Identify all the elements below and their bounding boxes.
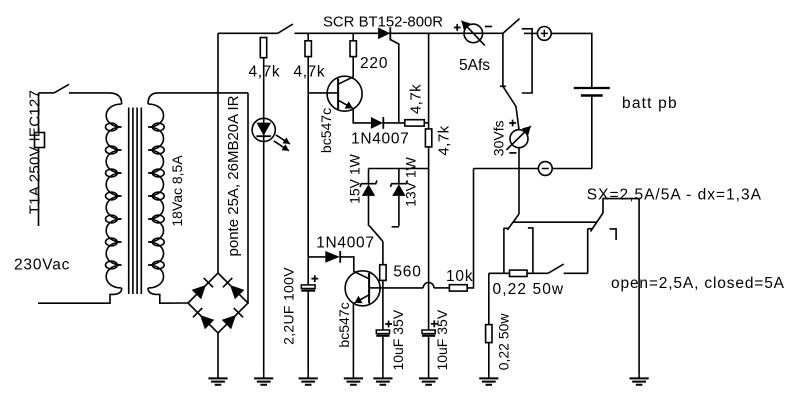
- svg-text:10uF 35V: 10uF 35V: [390, 309, 406, 370]
- resistor 10k R7: [449, 285, 467, 291]
- wire D2 to Q2 collector: [340, 257, 354, 272]
- wire secondary top to bridge: [158, 92, 248, 94]
- svg-text:15V 1W: 15V 1W: [347, 153, 363, 204]
- bridge diode top-left: [192, 285, 206, 299]
- wire SXb contact up: [587, 229, 589, 273]
- wire cap node to D2: [308, 256, 325, 258]
- bridge diode bottom-left: [200, 315, 214, 329]
- svg-text:ponte 25A, 26MB20A IR: ponte 25A, 26MB20A IR: [225, 95, 242, 256]
- ground SX: [638, 375, 640, 379]
- wire anode rail top: [428, 33, 430, 129]
- svg-text:4,7k: 4,7k: [294, 64, 326, 81]
- wire S3b pole: [502, 33, 504, 86]
- transistor Q2 bc547c emitter arrow: [354, 295, 369, 303]
- wire hop over rail: [423, 283, 434, 288]
- C3 plus sign: [431, 320, 438, 327]
- wire primary top corner: [109, 93, 122, 104]
- diode D2 1N4007: [325, 251, 339, 263]
- transformer T1 primary winding: [106, 104, 122, 288]
- wire Q2 base: [369, 287, 383, 289]
- ground LED: [263, 375, 265, 379]
- wire minus rail left: [474, 168, 539, 170]
- switch S4 blade: [548, 264, 564, 273]
- svg-text:10k: 10k: [446, 268, 473, 285]
- svg-text:bc547c: bc547c: [336, 302, 352, 347]
- ammeter 5Afs needle: [462, 21, 485, 46]
- wire 220 to Q1 collector: [352, 57, 354, 77]
- switch S1 mains blade: [54, 84, 69, 93]
- wire shunt2 down: [488, 273, 490, 324]
- wire R2 top: [307, 33, 309, 41]
- SXb contact tick: [588, 228, 593, 230]
- switch gang bracket left: [528, 228, 533, 273]
- switch S2 blade: [278, 24, 293, 33]
- svg-text:30Vfs: 30Vfs: [490, 120, 506, 156]
- switch S3b blade: [503, 86, 519, 129]
- battery batt pb: [574, 87, 610, 89]
- resistor 560 R6: [380, 265, 386, 281]
- wire mains live top: [39, 92, 55, 94]
- wire top rail mid: [295, 32, 503, 34]
- wire C3 to ground: [428, 336, 430, 375]
- voltmeter 30Vfs needle: [506, 126, 530, 150]
- wire zener rail: [369, 168, 429, 170]
- resistor 4,7k R2: [305, 41, 311, 57]
- svg-text:5Afs: 5Afs: [459, 57, 490, 74]
- LED D3 body: [252, 118, 275, 141]
- wire Q1 emitter down: [353, 109, 371, 123]
- wire top rail left: [218, 32, 278, 34]
- wire primary bottom corner: [113, 288, 122, 294]
- wire SXb to ground: [603, 199, 639, 375]
- wire secondary bottom to bridge: [157, 294, 188, 303]
- wire S3 to plus terminal: [524, 32, 537, 34]
- resistor 4,7k R4 horizontal: [405, 120, 425, 126]
- wire Q1 base: [308, 92, 338, 94]
- transistor Q2 bc547c: [345, 271, 380, 306]
- wire secondary bottom corner: [148, 288, 157, 294]
- wire R5 to zener rail: [428, 147, 430, 330]
- svg-text:18Vac 8,5A: 18Vac 8,5A: [169, 155, 185, 227]
- wire plus terminal to battery: [551, 33, 592, 88]
- wire mains neutral bottom: [38, 294, 113, 303]
- svg-text:SCR BT152-800R: SCR BT152-800R: [323, 15, 443, 31]
- wire 10k to sense: [467, 169, 473, 288]
- capacitor C1 2,2UF 100V: [301, 285, 315, 289]
- SCR BT152-800R: [378, 28, 390, 40]
- ground Q2 emitter: [352, 375, 354, 379]
- bridge diode bottom-right: [222, 315, 236, 329]
- wire switch to transformer: [69, 92, 109, 94]
- SXa contact tick: [503, 227, 509, 229]
- ground C3: [428, 375, 430, 379]
- wire 560 bottom: [382, 280, 384, 288]
- transistor Q1 bc547c emitter arrow: [338, 100, 353, 108]
- wire hop to 10k: [434, 287, 449, 289]
- diode D1 1N4007: [371, 117, 383, 129]
- bridge diode top-right: [230, 285, 244, 299]
- svg-text:4,7k: 4,7k: [407, 84, 424, 114]
- transformer T1 secondary winding: [148, 104, 164, 288]
- svg-text:open=2,5A, closed=5A: open=2,5A, closed=5A: [611, 275, 785, 292]
- svg-text:batt pb: batt pb: [622, 95, 678, 112]
- C2 plus sign: [385, 321, 392, 328]
- voltmeter minus: [509, 152, 516, 154]
- svg-text:0,22 50w: 0,22 50w: [495, 313, 511, 371]
- ground C1: [307, 375, 309, 379]
- wire C1 to ground: [307, 291, 309, 375]
- wire blade to 560: [382, 241, 384, 264]
- svg-text:T1A 250V IEC127: T1A 250V IEC127: [26, 90, 43, 215]
- transformer core: [129, 108, 142, 295]
- svg-text:230Vac: 230Vac: [14, 257, 70, 274]
- svg-text:2,2UF 100V: 2,2UF 100V: [281, 267, 297, 345]
- wire bus right: [564, 272, 588, 274]
- LED arrow 1: [276, 135, 290, 144]
- ground bridge minus: [217, 333, 219, 378]
- transistor Q1 bc547c: [327, 76, 362, 111]
- resistor 220 R3: [350, 41, 356, 57]
- wire R1 to LED: [263, 58, 265, 375]
- resistor 0,22 50w R8: [510, 270, 528, 276]
- ammeter minus: [485, 26, 492, 28]
- svg-text:4,7k: 4,7k: [435, 125, 452, 155]
- svg-text:10uF 35V: 10uF 35V: [434, 309, 450, 370]
- LED arrow 2: [274, 141, 289, 151]
- wire C2 to ground: [382, 336, 384, 375]
- wire bridge plus to top rail: [217, 33, 219, 273]
- switch gang bracket top: [522, 29, 532, 93]
- voltmeter plus: [509, 120, 516, 127]
- ground C2: [382, 375, 384, 379]
- svg-text:bc547c: bc547c: [318, 108, 334, 153]
- wire Q2 emitter to ground: [352, 304, 354, 375]
- ground shunt2: [488, 375, 490, 379]
- wire sense down: [518, 169, 520, 215]
- wire D1 to R4: [383, 122, 405, 124]
- terminal battery minus: [538, 162, 552, 176]
- wire R2 down to cap: [307, 57, 309, 285]
- selector switch blade: [369, 226, 383, 242]
- switch S3a blade: [503, 19, 520, 34]
- switch gang bracket right: [610, 229, 617, 240]
- voltmeter 30Vfs: [510, 130, 528, 148]
- selector fixed contact Z2: [392, 226, 399, 228]
- fuse F1 T1A: [35, 133, 45, 148]
- capacitor C2 10uF 35V: [376, 330, 389, 334]
- wire battery to minus rail: [591, 96, 593, 169]
- resistor 4,7k R1: [260, 38, 266, 58]
- svg-text:0,22 50w: 0,22 50w: [493, 281, 565, 298]
- wire bus mid: [527, 272, 548, 274]
- wire mains live vertical: [38, 93, 40, 226]
- terminal battery plus: [537, 27, 551, 41]
- svg-text:220: 220: [360, 55, 388, 72]
- wire shunt bus left: [489, 272, 510, 274]
- wire gang link: [514, 221, 597, 223]
- svg-text:13V 1W: 13V 1W: [402, 156, 418, 207]
- svg-text:560: 560: [393, 264, 421, 281]
- switch SXb blade: [591, 213, 604, 232]
- wire Q2 base to hop: [383, 287, 423, 289]
- wire 560 line to C2: [382, 288, 384, 330]
- ammeter 5Afs: [464, 24, 483, 43]
- wire minus rail right: [552, 168, 592, 170]
- svg-text:SX=2,5A/5A - dx=1,3A: SX=2,5A/5A - dx=1,3A: [587, 187, 762, 204]
- resistor 0,22 50w R9: [486, 325, 492, 343]
- wire SXa contact down: [503, 228, 505, 273]
- wire R4 to rail: [424, 122, 428, 124]
- S3b contact tick: [500, 85, 506, 87]
- wire SCR gate: [390, 40, 399, 123]
- ammeter plus: [454, 24, 461, 31]
- resistor 4,7k R5: [425, 129, 431, 147]
- bridge rectifier diamond: [188, 273, 248, 333]
- zener Z2 13V 1W: [398, 169, 400, 184]
- svg-text:1N4007: 1N4007: [351, 131, 410, 148]
- wire 220 top: [352, 33, 354, 41]
- wire shunt2 to ground: [488, 343, 490, 375]
- wire voltmeter to minus rail: [518, 148, 520, 169]
- zener Z1 15V 1W: [368, 169, 370, 184]
- svg-text:1N4007: 1N4007: [316, 235, 375, 252]
- wire bridge AC right: [247, 93, 249, 303]
- switch SXa blade: [507, 214, 519, 230]
- C1 plus sign: [311, 275, 318, 282]
- capacitor C3 10uF 35V: [422, 330, 435, 334]
- wire secondary top corner: [148, 93, 158, 104]
